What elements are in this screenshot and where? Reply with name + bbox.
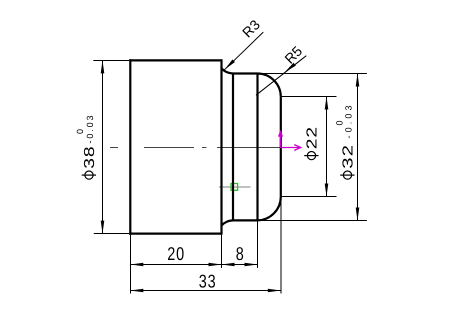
point marker (green square) [231,184,238,191]
svg-text:8: 8 [236,243,244,264]
dimension label phi32 0/-0.03 [335,106,357,180]
phi32 top edge [233,72,258,74]
phi32 dim arrow down [356,208,360,221]
arrowheads (filled) [101,59,360,292]
phi32 bottom extension line [259,220,367,222]
20/8 dimension line [130,264,257,266]
extension below shoulder face (20/8 dims) [221,235,223,268]
svg-text:20: 20 [167,243,185,264]
thin extension / dimension lines [93,32,367,293]
R5 leader line [256,56,306,95]
20 dim arrow right [209,263,222,267]
svg-text:0: 0 [335,120,345,125]
left end face (phi38) [129,59,131,234]
phi38 dim arrow down [101,221,105,234]
phi22 dim arrow down [325,184,329,197]
R5 tangent edge line [256,74,258,221]
phi32 top extension line [259,73,367,75]
phi22 top extension line [281,96,337,98]
svg-text:33: 33 [199,271,217,292]
R5 leader arrowhead [285,63,296,73]
phi32 bottom edge [233,219,258,221]
phi22 bottom extension line [281,196,337,198]
R3 tangent edge line [232,74,234,221]
dimension label phi22 [304,126,320,160]
fillet R3 bottom [222,220,234,225]
dimension label phi38 0/-0.03 [75,116,98,180]
8 dim arrow right [245,263,258,267]
right end face (phi22) [280,97,282,197]
phi22 dimension line [326,97,328,197]
33 dim arrow right [268,289,281,293]
workpiece origin marker (magenta axes) [278,130,301,151]
R3 leader line [224,32,263,70]
phi38 dimension line [102,60,104,233]
point-marker crosshair (grey) [219,186,251,188]
fillet R5 top [258,74,281,97]
origin Z axis arrow (up) [280,135,282,148]
20 dim arrow left [130,263,143,267]
svg-text:32: 32 [341,144,357,169]
phi38 dim arrow up [101,60,105,73]
extension below right end face (33 dim) [280,197,282,294]
33 dim arrow left [130,289,143,293]
R3 leader arrowhead [224,59,235,69]
33 dimension line [130,290,280,292]
fillet R3 top [222,68,234,73]
origin X axis arrow (right) [281,147,301,149]
phi32 dimension line [357,74,359,221]
phi32 dim arrow up [356,74,360,87]
svg-text:22: 22 [305,126,321,149]
phi38 bottom extension line [94,233,129,235]
phi22 dim arrow up [325,97,329,110]
phi38 bottom edge [129,233,221,235]
extension below part left edge (20/33 dims) [130,235,132,294]
fillet R5 bottom [258,197,281,221]
svg-text:0: 0 [75,129,85,134]
phi38 shoulder face [220,59,222,234]
phi38 top edge [129,59,221,61]
8 dim arrow left [222,263,235,267]
svg-text:-0.03: -0.03 [85,116,95,144]
phi38 top extension line [93,60,129,62]
part outline [129,59,281,234]
svg-text:38: 38 [82,146,98,169]
extension below R5 tangent (8 dim) [257,222,259,269]
centerline (part axis, dash-dot) [110,147,281,149]
